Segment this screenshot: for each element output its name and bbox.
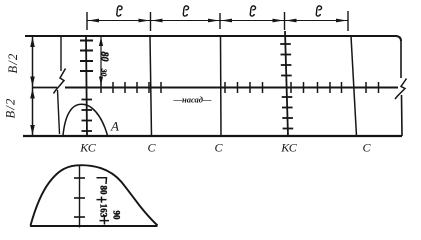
- KC2 cross ties: [280, 44, 293, 129]
- KC1 cross ties lower: [82, 100, 93, 132]
- pile row C3 x=352: [351, 36, 357, 136]
- dimension line ell (top chain): [87, 20, 348, 22]
- B/2 arrowhead mid up: [30, 89, 35, 99]
- dimension tick x=150: [150, 12, 152, 31]
- arrowheads segment 2: [152, 19, 220, 23]
- arrowheads segment 4: [286, 19, 348, 23]
- pier section base line: [30, 225, 158, 227]
- svg-text:B/2: B/2: [6, 53, 20, 74]
- dim plus tick bottom: [100, 216, 110, 225]
- svg-text:B/2: B/2: [4, 98, 18, 119]
- dim bracket top: [97, 178, 107, 184]
- svg-text:С: С: [362, 141, 371, 155]
- pile row KC1 x=86: [86, 36, 87, 136]
- svg-text:A: A: [110, 119, 119, 134]
- pile row C2 x=221: [220, 36, 223, 136]
- pier section outline (bottom figure): [31, 165, 158, 225]
- annotation arrow down: [99, 77, 103, 86]
- label ell 2: [183, 6, 188, 16]
- dim bracket middle: [97, 197, 107, 203]
- svg-text:КС: КС: [79, 141, 96, 155]
- svg-text:90: 90: [112, 211, 122, 221]
- pile row KC2 x=286: [285, 31, 288, 136]
- B/2 arrowhead bottom down: [30, 125, 35, 135]
- annotation dimension line x=101: [100, 37, 102, 84]
- svg-text:80: 80: [99, 52, 110, 62]
- pier center line tick 1: [74, 177, 85, 179]
- arrowheads segment 3: [221, 19, 284, 23]
- influence curve A: [63, 104, 108, 135]
- deck top chord line: [25, 36, 401, 41]
- svg-text:КС: КС: [280, 141, 297, 155]
- right edge lower segment: [401, 95, 404, 136]
- short pile line lower (cut): [58, 90, 60, 134]
- dimension tick x=87: [86, 12, 88, 30]
- left edge / B dimension line: [32, 36, 34, 136]
- dimension tick x=348: [347, 11, 349, 31]
- right break zigzag: [395, 79, 407, 100]
- middle longitudinal line main part: [65, 87, 398, 89]
- label ell 4: [316, 6, 321, 16]
- pier center line tick 2: [74, 197, 85, 199]
- pile row C1 x=150: [150, 36, 152, 136]
- B/2 arrowhead mid down: [30, 77, 35, 87]
- label ell 3: [250, 6, 255, 16]
- middle longitudinal line left part: [33, 87, 58, 89]
- svg-text:80: 80: [99, 186, 109, 196]
- arrowheads segment 1: [88, 19, 150, 23]
- B/2 arrowhead top up: [30, 37, 35, 47]
- svg-text:С: С: [147, 141, 156, 155]
- annotation arrow up: [99, 37, 103, 46]
- dimension tick x=220: [219, 13, 221, 29]
- svg-text:—насад—: —насад—: [173, 95, 212, 105]
- pier center line tick 3: [74, 216, 85, 218]
- dimension tick x=284: [284, 12, 286, 30]
- pier section center line: [79, 165, 81, 228]
- midline ticks left group: [101, 82, 161, 93]
- svg-text:163: 163: [99, 204, 109, 218]
- midline ticks right group: [225, 82, 379, 93]
- short pile line upper (cut): [60, 36, 62, 71]
- svg-text:30: 30: [100, 68, 109, 77]
- label ell 1: [117, 6, 122, 16]
- right edge upper segment: [400, 40, 402, 78]
- deck bottom chord line: [23, 135, 402, 137]
- svg-text:С: С: [214, 141, 223, 155]
- KC1 cross ties upper: [80, 41, 93, 72]
- left break zigzag: [54, 69, 66, 94]
